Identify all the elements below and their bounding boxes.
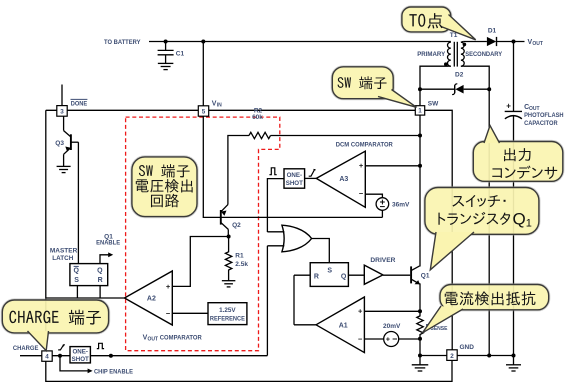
text 回路 line3 [151,194,179,207]
svg-text:+: + [358,307,363,316]
wire A1 + input [364,310,420,312]
wire 36mV bottom to base rail [381,210,383,217]
text 電圧検出 line2 [136,179,193,193]
svg-text:SHOT: SHOT [286,180,303,187]
svg-text:3: 3 [60,109,64,116]
svg-text:A3: A3 [339,176,348,183]
wire OR output to RS latch S [312,239,330,263]
wire secondary-bottom to ground rail vertical [488,89,490,355]
svg-text:R1: R1 [235,253,244,260]
text スイッチ・ [452,195,505,207]
node Cout ground node [512,354,516,358]
source 20mV [384,332,399,347]
svg-text:ENABLE: ENABLE [96,240,121,247]
label VOUT [528,39,543,47]
wire CHARGE lead [20,355,42,357]
svg-text:IN: IN [217,103,222,109]
wire A3 - input to 36mV [365,194,382,198]
wire one-shot output to OR [90,355,267,357]
node D2-line ground node [487,354,491,358]
resistor R1 [225,237,231,281]
wire Q2 collector drop [227,229,229,236]
svg-text:1.25V: 1.25V [219,307,236,314]
svg-text:OUT: OUT [148,337,159,343]
source 36mV [376,198,389,211]
svg-text:PHOTOFLASH: PHOTOFLASH [524,112,564,119]
node sense node [418,337,422,341]
wire CHARGE pin to one-shot [52,355,70,357]
wire SW to GND-pin vertical [425,110,453,349]
svg-text:Q2: Q2 [232,222,241,229]
label MASTER LATCH [50,247,78,262]
diode D1 [487,37,497,46]
svg-text:+: + [386,337,390,344]
wire right ground stub [513,356,515,365]
wire A3 + input [365,165,420,167]
svg-text:2.5k: 2.5k [235,261,248,268]
svg-text:C1: C1 [176,51,185,58]
node primary phase dot [444,62,448,66]
capacitor COUT (photoflash) [505,111,522,118]
wire ground stub [419,356,421,365]
svg-text:S: S [327,267,332,274]
wire sense node to ground rail [419,339,421,356]
svg-text:−: − [359,189,364,198]
comparator A2 [125,271,173,325]
svg-text:−: − [166,309,171,318]
master latch [70,264,108,286]
wire A1 output to R [293,275,295,325]
wire one-shot output [267,179,284,232]
wire RS latch R input [294,274,310,276]
svg-text:ONE-: ONE- [72,348,87,355]
reference 1.25V box [208,303,247,325]
wire ground rail right [457,355,513,357]
wire master latch R input [99,286,101,298]
svg-text:5: 5 [202,109,206,116]
wire secondary bottom lead [463,66,489,89]
svg-text:A1: A1 [339,322,348,329]
text コンデンサ [492,166,557,179]
wire ground rail to GND pin [420,355,447,357]
comparator A1 [316,297,364,353]
label RSENSE [426,324,449,332]
svg-text:OUT: OUT [529,106,540,112]
arrow Q1 ENABLE [108,252,113,257]
svg-text:TO BATTERY: TO BATTERY [104,39,141,46]
resistor RSENSE [417,311,423,339]
wire R2 left lead down to Q2 emitter [228,136,249,205]
label R1 2.5k [235,253,248,269]
label VOUT COMPARATOR [143,335,202,343]
pulse symbol (CHARGE one-shot) [97,343,104,348]
annotation callout: output capacitor [473,126,563,182]
node VOUT node [512,40,516,44]
rising edge symbol (A3 output) [309,169,316,176]
svg-text:CHARGE: CHARGE [13,345,39,352]
svg-text:Q: Q [73,268,79,275]
text CHARGE端子 [9,310,100,325]
one-shot (CHARGE) [70,347,90,363]
pin 4 (CHARGE) [42,351,52,361]
text 出力 [504,148,530,161]
svg-text:36mV: 36mV [392,202,410,209]
ground below C1 [158,63,174,69]
svg-text:ONE-: ONE- [287,172,302,179]
wire chip enable drop [60,356,88,371]
wire VIN to Q2 base rail [203,116,382,217]
wire A2 + input [172,237,228,287]
pulse symbol (one-shot output) [269,168,276,175]
wire SW up to D2 node [419,89,421,106]
svg-text:Q3: Q3 [55,140,64,147]
svg-text:REFERENCE: REFERENCE [210,316,245,323]
svg-text:D1: D1 [488,27,497,34]
wire stub above DONE pin [61,85,63,106]
node secondary phase dot [463,43,467,47]
annotation callout: SW terminal [332,67,416,108]
svg-text:D2: D2 [455,72,464,79]
wire A3 output to one-shot [305,177,317,179]
capacitor C1 [158,42,174,64]
text SW端子 line1 [139,164,190,177]
annotation callout: SW terminal voltage detection circuit [132,157,197,217]
svg-text:S: S [74,277,79,284]
wire charge one-shot to OR bottom input [266,246,268,356]
svg-text:4: 4 [45,354,49,361]
text トランジスタ [438,212,510,225]
svg-text:R: R [98,277,103,284]
svg-text:Q: Q [341,273,347,280]
wire sense to 20mV [399,338,420,340]
wire Cout to ground rail [513,116,515,356]
ground below R1 [222,281,236,287]
svg-text:+: + [359,161,364,170]
wire D2 wire [420,88,455,90]
node Q1 emitter node [418,309,422,313]
node battery-VIN junction [201,40,205,44]
svg-text:CAPACITOR: CAPACITOR [524,120,558,127]
svg-text:SW: SW [428,100,439,107]
comparator A3 [316,151,365,207]
wire A2 - input to reference [172,312,208,314]
wire VOUT down to Cout [513,42,515,112]
pin 3 (DONE) [57,106,67,117]
svg-text:COMPARATOR: COMPARATOR [160,335,202,342]
wire OR bottom input [267,245,284,247]
wire Q1 collector to SW [419,115,421,266]
svg-text:20mV: 20mV [383,323,401,330]
wire primary bottom lead [420,66,449,89]
pin 1 (SW) [415,106,424,115]
svg-text:DCM COMPARATOR: DCM COMPARATOR [336,141,393,148]
wire D2 anode to secondary bottom [464,88,490,90]
node A3+ tap on SW line [418,164,422,168]
svg-text:−: − [358,335,363,344]
svg-text:LATCH: LATCH [52,255,73,262]
svg-text:DRIVER: DRIVER [370,257,395,264]
svg-text:1: 1 [418,108,422,115]
svg-text:+: + [506,102,511,111]
wire OR top input [267,231,284,233]
label COUT PHOTOFLASH CAPACITOR [524,104,564,127]
label DONE (active low) [71,99,88,107]
node SW/D2/primary node [418,87,422,91]
wire A2 output to latch/DONE net [46,297,125,299]
annotation callout: current sense resistor [423,285,549,333]
svg-text:+: + [166,282,171,291]
diode D2 (schottky) [452,84,464,95]
svg-text:Q1: Q1 [421,272,430,279]
svg-text:R: R [314,273,319,280]
pin 2 (GND) [447,350,457,361]
node battery-C1 junction [164,40,168,44]
annotation callout: TO point [402,7,476,40]
label R2 60k [252,108,263,122]
arrow CHIP ENABLE [88,369,93,374]
svg-text:OUT: OUT [532,41,543,47]
wire Q3 base to master latch [77,142,79,263]
OR gate [282,225,312,252]
driver [364,265,383,284]
one-shot (DCM) [284,169,305,188]
label Q1 ENABLE [96,233,121,246]
transistor Q1 [411,266,420,284]
wire secondary top to D1 [463,41,487,43]
transformer T1 [448,42,465,67]
ground output ground [506,365,521,371]
wire master latch Q to arrow [100,255,109,264]
pin 5 (VIN) [198,106,208,116]
node ground rail left node [418,354,422,358]
svg-text:SHOT: SHOT [72,356,89,363]
rising edge symbol (CHARGE) [58,345,65,350]
svg-text:A2: A2 [147,296,156,303]
node charge node [58,354,62,358]
transistor Q3 [64,116,79,166]
svg-text:Q: Q [97,268,103,275]
ground below Q3 emitter [57,166,71,172]
wire Q1 emitter to sense node [419,284,421,311]
wire left vertical from DONE wire to CHARGE pin [45,110,47,351]
svg-text:SECONDARY: SECONDARY [465,51,503,58]
annotation callout: switch transistor Q1 [425,188,539,270]
ground main (below sense) [412,365,429,371]
text TO点 [409,13,442,29]
node one-shot output node [109,354,113,358]
node secondary bottom node [487,87,491,91]
wire D1 cathode to VOUT [497,41,525,43]
wire master latch S input [76,286,78,298]
resistor R2 [249,132,271,138]
wire 20mV to A1 - [364,338,383,340]
wire driver to Q1 base [383,274,410,276]
wire VIN drop [202,42,204,107]
svg-text:GND: GND [460,344,475,351]
svg-text:2: 2 [450,353,454,360]
svg-text:DONE: DONE [71,100,88,107]
node R2 tap on SW line [418,134,422,138]
wire R2 right lead [271,135,421,137]
svg-text:CHIP ENABLE: CHIP ENABLE [94,369,134,376]
text 電流検出抵抗 [445,291,536,305]
wire main rail [46,109,416,111]
text SW端子 [338,76,387,89]
wire RS latch Q to driver [348,274,364,276]
label VIN [212,101,222,109]
svg-text:MASTER: MASTER [50,247,78,254]
wire A1 output lead [294,324,316,326]
node Q2 collector node [227,235,231,239]
svg-text:60k: 60k [252,114,263,121]
svg-text:PRIMARY: PRIMARY [417,51,446,58]
RS latch [310,263,348,287]
SW terminal voltage detection circuit boundary (red dashed) [126,117,280,351]
wire bottom rail (pin4 to pin2) [46,360,452,381]
annotation callout: CHARGE terminal [2,300,108,351]
wire battery rail [149,41,449,43]
transistor Q2 [221,205,229,230]
